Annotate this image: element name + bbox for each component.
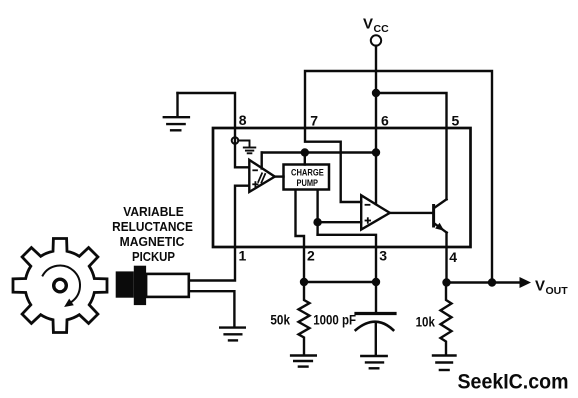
capacitor C1 1000 pF xyxy=(356,282,395,355)
ground under R2 xyxy=(433,356,456,371)
pickup caption text xyxy=(112,204,193,264)
svg-text:CHARGE: CHARGE xyxy=(291,167,324,177)
svg-text:1000 pF: 1000 pF xyxy=(313,312,356,328)
svg-text:SeekIC.com: SeekIC.com xyxy=(458,371,569,394)
wire charge pump right stub down xyxy=(316,190,318,235)
svg-text:50k: 50k xyxy=(270,312,290,328)
gear wheel xyxy=(13,239,107,333)
svg-text:V: V xyxy=(535,278,545,295)
watermark SeekIC.com xyxy=(458,371,569,394)
capacitor C1 label 1000 pF xyxy=(313,312,356,328)
svg-text:7: 7 xyxy=(310,113,318,129)
charge pump label xyxy=(291,167,324,188)
transistor Q1 emitter xyxy=(435,224,447,233)
node junction dot Vout column xyxy=(488,278,496,286)
node junction dot pin 4 xyxy=(442,278,450,286)
wire U2 output to charge pump xyxy=(275,175,284,177)
node junction dot pin 2 xyxy=(300,278,308,286)
svg-text:1: 1 xyxy=(239,248,247,264)
wire bottom rail pins 2-3 xyxy=(304,281,376,283)
op-amp U3 triangle xyxy=(361,195,390,229)
svg-text:8: 8 xyxy=(239,112,247,128)
wire ground to pin 8 and U2 minus input xyxy=(178,93,249,167)
node junction dot U3 plus input xyxy=(313,218,321,226)
wire pin 1 to U2 plus input and pickup coil xyxy=(189,186,249,281)
wire pin7 net: right vertical to Vout rail, top rail y=71, down into box to U3 minus input xyxy=(305,71,492,283)
Vout arrowhead xyxy=(520,277,532,288)
wire Q1 emitter to pin 4 xyxy=(445,233,447,283)
ground under pickup xyxy=(220,328,245,341)
IC box U1 outline xyxy=(213,128,471,247)
resistor R2 label 10k xyxy=(416,314,435,330)
wire charge pump top stub xyxy=(304,153,306,165)
charge pump box xyxy=(284,165,330,190)
wire Vcc vertical through pin 6 to op-amp U3 top xyxy=(375,46,377,204)
op-amp U2 comparator triangle xyxy=(249,160,274,192)
gear rotation arrowhead xyxy=(64,299,74,307)
gear hub xyxy=(54,279,67,292)
node junction dot Vcc/pin5 feed xyxy=(372,89,380,97)
svg-text:OUT: OUT xyxy=(546,285,569,297)
pickup magnet pole piece xyxy=(116,271,134,297)
resistor R1 50k xyxy=(299,282,310,355)
node junction dot charge pump top xyxy=(301,148,309,156)
svg-text:RELUCTANCE: RELUCTANCE xyxy=(112,219,193,234)
wire Vcc dot to pin 5 / Q1 collector feed xyxy=(376,93,447,199)
pin label 1 xyxy=(239,248,247,264)
pin label 6 xyxy=(381,113,389,129)
pickup coil body xyxy=(146,274,189,297)
wire U3 plus input xyxy=(318,221,362,223)
internal ground at pin 8 xyxy=(238,141,255,154)
op-amp U3 minus sign xyxy=(366,204,370,206)
wire internal rail y=152.5 feeding U2 and charge pump xyxy=(262,151,376,153)
resistor R2 10k xyxy=(441,283,452,355)
svg-text:PICKUP: PICKUP xyxy=(132,249,175,264)
pickup magnet flange xyxy=(134,266,146,305)
node junction dot pin 3 xyxy=(372,278,380,286)
ground top-left xyxy=(164,93,189,130)
wire U3 output to Q1 base xyxy=(390,212,432,214)
svg-text:10k: 10k xyxy=(416,314,435,330)
pin label 7 xyxy=(310,113,318,129)
node junction dot pin6 internal rail xyxy=(372,148,380,156)
pin label 8 xyxy=(239,112,247,128)
svg-text:3: 3 xyxy=(379,248,387,264)
wire drop to U2 top xyxy=(261,153,263,169)
svg-text:CC: CC xyxy=(374,23,390,35)
Vcc label xyxy=(363,16,389,36)
wire charge pump left stub to pin 2 xyxy=(296,190,305,282)
svg-text:MAGNETIC: MAGNETIC xyxy=(120,234,185,249)
wire output rail pin 4 to Vout xyxy=(447,281,521,283)
transistor Q1 emitter arrow xyxy=(435,223,444,231)
Vout label xyxy=(535,278,568,298)
pin label 4 xyxy=(449,249,457,265)
svg-text:4: 4 xyxy=(449,249,457,265)
gear rotation arrow arc xyxy=(43,266,80,302)
svg-text:5: 5 xyxy=(452,113,460,129)
ground under C1 xyxy=(361,356,386,368)
pin label 2 xyxy=(307,248,315,264)
op-amp U2 hysteresis hatch marks xyxy=(258,173,265,182)
pin 8 terminal circle xyxy=(232,137,239,144)
pin label 5 xyxy=(452,113,460,129)
transistor Q1 base bar xyxy=(432,206,435,227)
op-amp U2 plus sign xyxy=(253,182,257,186)
pin label 3 xyxy=(379,248,387,264)
svg-text:PUMP: PUMP xyxy=(297,178,319,188)
svg-text:6: 6 xyxy=(381,113,389,129)
svg-text:V: V xyxy=(363,16,373,33)
resistor R1 label 50k xyxy=(270,312,290,328)
svg-text:2: 2 xyxy=(307,248,315,264)
transistor Q1 collector xyxy=(435,199,447,207)
Vcc terminal circle xyxy=(371,35,381,45)
wire to pin 3 xyxy=(318,235,376,282)
op-amp U3 plus sign xyxy=(366,218,371,223)
ground under R1 xyxy=(291,356,316,367)
pickup coil bottom wire to ground xyxy=(189,291,235,326)
svg-text:VARIABLE: VARIABLE xyxy=(123,204,184,219)
op-amp U2 minus sign xyxy=(253,169,257,171)
